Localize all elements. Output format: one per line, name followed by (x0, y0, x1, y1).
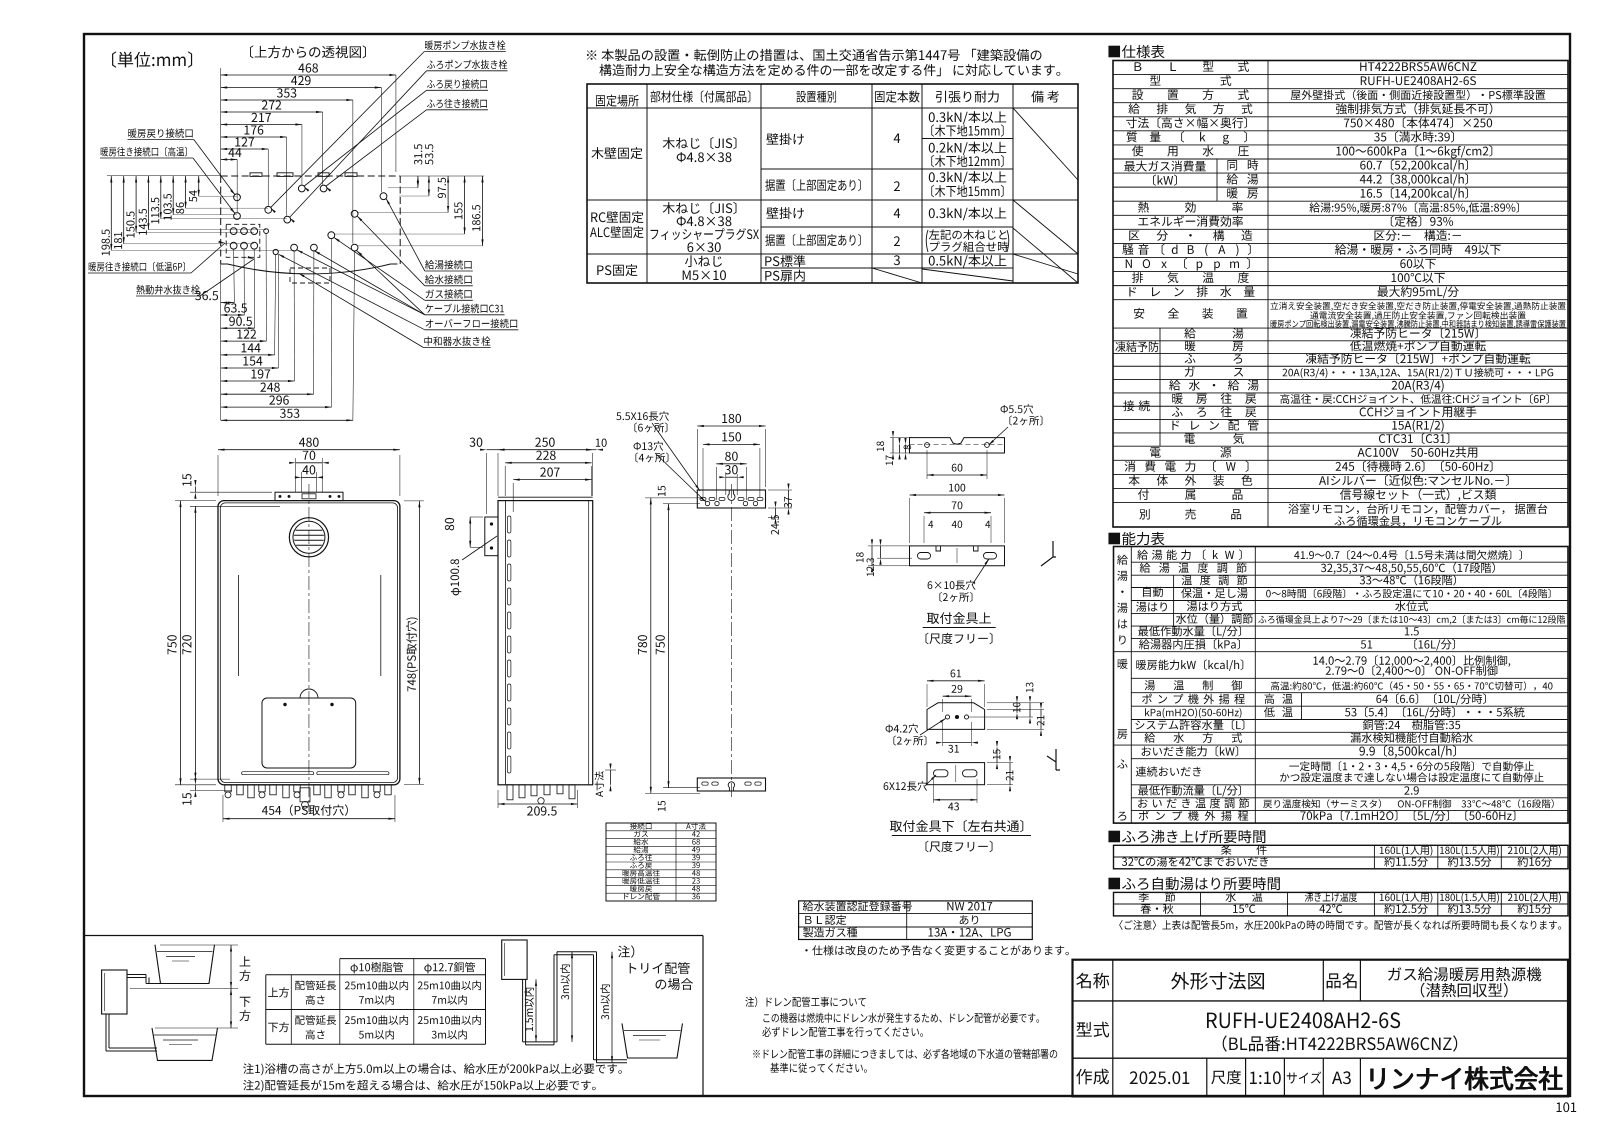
6x10 slot label (928, 580, 976, 590)
torii heater (502, 940, 527, 979)
heater icon left (102, 970, 127, 1014)
43 dim (934, 799, 978, 801)
31 dim (943, 742, 972, 744)
bracket bottom part1 dims right (1016, 703, 1018, 713)
capability auto-fill rows (1143, 587, 1163, 597)
top view unit outline dashed (221, 175, 401, 177)
bottom section frame (84, 935, 703, 937)
front view louver lines (242, 772, 314, 775)
piping table (340, 958, 486, 960)
top view label thermal valve (136, 285, 199, 294)
drain notes (745, 997, 865, 1008)
top view blower bulge (228, 264, 391, 274)
6x12 slot label (884, 781, 927, 791)
unit label (112, 51, 192, 67)
company name (1371, 1066, 1562, 1090)
fixing table diagonals (1013, 108, 1078, 180)
page number 101 (1557, 1102, 1577, 1112)
front view crease lines (238, 575, 240, 676)
bracket top part2 (910, 494, 1005, 496)
side view wall bracket (485, 517, 498, 556)
top view title (250, 45, 366, 58)
side view body (498, 501, 593, 785)
fixing table rows (591, 147, 642, 159)
bath auto fill table title (1108, 877, 1279, 890)
bracket bottom part2 (927, 763, 985, 785)
title block (1073, 960, 1569, 1097)
bracket top part1 (910, 438, 1005, 453)
front view vent circle (289, 518, 328, 557)
top view leader labels right mid (425, 260, 472, 269)
bracket bottom part1 (927, 680, 985, 682)
side view phi100.8 label (450, 559, 461, 595)
piping left (127, 974, 146, 976)
front view left dims (180, 501, 182, 785)
bath boil time table title (1108, 830, 1265, 843)
side view dim 228 (505, 462, 591, 464)
top view mounting tabs (250, 173, 262, 177)
fixing table (587, 84, 1078, 283)
side view dim 209.5 (498, 803, 577, 805)
top view connection circles (234, 194, 241, 201)
bathtub lower (152, 1028, 218, 1060)
side view bottom fittings (507, 785, 513, 800)
spec safety row (1134, 308, 1144, 319)
bracket top L icon (1041, 541, 1056, 566)
installation note (587, 49, 1042, 61)
connection size table (606, 823, 716, 901)
A size dim (595, 771, 604, 797)
top view top dimension stack (220, 68, 222, 176)
fixing table header (596, 95, 639, 107)
front view access panel (262, 698, 356, 768)
capability table title (1108, 532, 1164, 545)
certification table (799, 901, 1033, 940)
top view cable extra leaders (314, 251, 425, 315)
side view dim 10 (593, 449, 597, 451)
phi5.5 label (1001, 404, 1034, 414)
front view dim 480 (218, 449, 400, 451)
front view dim 70 (296, 462, 323, 464)
back view hole labels (616, 411, 669, 421)
back view 37 24.5 dims (788, 490, 790, 508)
capability group labels (1117, 555, 1128, 565)
capability table grid (1114, 547, 1569, 824)
spec sold separately row (1139, 509, 1149, 520)
spec table title (1108, 45, 1164, 58)
side view dim 30 (487, 449, 498, 451)
top view right dimension group (400, 175, 484, 177)
torii dims (535, 979, 537, 1042)
front view centerline (308, 484, 310, 812)
torii bathtub (622, 1023, 683, 1058)
spec table (1113, 61, 1568, 528)
title block row2 (1077, 1022, 1110, 1038)
bathtub upper (155, 945, 215, 984)
bottom notes (243, 1063, 622, 1075)
top view leader labels right top (425, 40, 505, 49)
back view top bracket (697, 490, 765, 508)
title block row1 (1322, 960, 1324, 1001)
bracket top part1 dims (892, 438, 894, 453)
title block row3 (1206, 1058, 1208, 1096)
capability reheat rows (1136, 766, 1201, 776)
front view body (218, 501, 400, 785)
top view left dimension stack (107, 175, 221, 177)
top view label low6P (89, 262, 185, 272)
back view dims (697, 425, 765, 427)
top view drain box dashed (290, 268, 330, 283)
capability pump rows (1301, 693, 1303, 720)
front view top bracket (275, 492, 343, 500)
bracket bottom caption (890, 820, 1023, 832)
side view rear line (588, 501, 590, 785)
torii piping (522, 979, 524, 1042)
top view connection box dashed (226, 224, 260, 257)
top view leader labels left (128, 128, 192, 137)
side view louver slots (508, 516, 511, 533)
phi4.2 label (886, 724, 919, 734)
updown dims (160, 944, 238, 946)
side view dim 250 (498, 449, 593, 451)
spec connection rows (1159, 366, 1161, 446)
bath note (1119, 920, 1561, 930)
top view 31.5 53.5 dims (417, 176, 419, 188)
back view bottom bracket (697, 778, 765, 791)
spec gas consumption rows (1216, 159, 1218, 201)
front view bottom fittings (225, 785, 231, 792)
bracket bottom L icon (1047, 749, 1060, 770)
back view centerline (730, 484, 732, 797)
capability heating rows (1136, 659, 1243, 671)
front view dim 40 (301, 476, 316, 478)
torii caption (618, 945, 634, 957)
spec freeze rows (1159, 328, 1161, 366)
front view dim 454 (223, 818, 395, 820)
side view dim 207 (513, 479, 591, 481)
bracket top caption (927, 612, 991, 624)
back view 780 750 dims (650, 498, 652, 794)
top view bottom dimension stack (220, 264, 222, 420)
front view dim 748 (418, 501, 420, 785)
side view dim 80 (469, 517, 471, 547)
